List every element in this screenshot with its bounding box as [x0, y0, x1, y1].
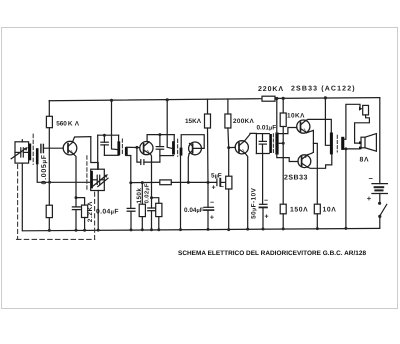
- wire CV1 top stub: [21, 140, 23, 142]
- node AVC: [207, 181, 210, 184]
- svg-text:10Λ: 10Λ: [323, 207, 337, 214]
- wire CV1 bottom to ground rail: [21, 163, 23, 231]
- arrow CV2: [93, 176, 106, 186]
- wire top supply rail right: [275, 97, 380, 100]
- wire T3 secondary bottom to Q6 base: [277, 155, 298, 162]
- T3 core dashed: [272, 134, 274, 153]
- wire T3 secondary top to Q5 base: [277, 128, 297, 134]
- wire Q4 collector: [244, 133, 256, 141]
- svg-text:+: +: [265, 213, 269, 220]
- wire right edge to battery: [379, 98, 381, 184]
- svg-text:0.02µF: 0.02µF: [143, 183, 150, 203]
- antenna coil L1 secondary winding: [36, 148, 39, 164]
- svg-text:8Λ: 8Λ: [360, 157, 370, 164]
- transistor Q5 output 2SB33 upper: [297, 120, 310, 133]
- node rail T3: [275, 97, 278, 100]
- antenna coil L1 primary winding: [29, 144, 31, 161]
- oscillator coil box L2 with variable capacitor CV2: [91, 169, 105, 190]
- transistor Q3 detector: [189, 142, 202, 155]
- node rail C5: [150, 228, 153, 231]
- T4 primary winding bar: [330, 133, 333, 155]
- output transformer T4 center tap from rail: [325, 98, 330, 145]
- wire T1 secondary to Q2 base: [126, 146, 140, 148]
- node rail C9: [262, 228, 265, 231]
- capacitor C1 0.005uF series plates: [40, 144, 42, 152]
- T1 secondary winding bar: [125, 147, 128, 156]
- wire rail feed to T1 tap: [112, 100, 118, 149]
- node rail R12: [316, 227, 319, 230]
- wire rail feed to T2 tap: [167, 100, 172, 149]
- svg-text:+: +: [212, 185, 216, 192]
- node Q2 base branch: [135, 146, 138, 149]
- node rail C3: [130, 228, 133, 231]
- node rail R5: [157, 228, 160, 231]
- svg-text:−: −: [220, 184, 224, 191]
- node rail T2: [179, 228, 182, 231]
- wire Q2 collector: [147, 135, 149, 142]
- wire Q5 collector: [306, 119, 331, 132]
- wire AGC line: [131, 181, 160, 183]
- svg-text:0.04µF: 0.04µF: [184, 207, 204, 214]
- capacitor C2 emitter bypass: [75, 198, 77, 207]
- capacitor C5 0.02uF: [151, 198, 153, 208]
- node 150k: [141, 181, 144, 184]
- svg-text:10KΛ: 10KΛ: [287, 113, 305, 120]
- wire T3 secondary top to rail: [276, 99, 278, 133]
- node bias divider: [48, 181, 51, 184]
- svg-text:2.2KΛ: 2.2KΛ: [87, 201, 94, 222]
- node rail R11: [282, 227, 285, 230]
- svg-text:0.04µF: 0.04µF: [96, 209, 119, 216]
- resistor R12 10ohm: [314, 204, 320, 214]
- wire base Q1: [43, 147, 63, 149]
- resistor R6 volume (horizontal): [160, 180, 172, 185]
- transistor Q6 output 2SB33 lower: [298, 155, 311, 168]
- svg-text:0.005µF: 0.005µF: [41, 154, 48, 184]
- wire secondary to ground rail: [345, 149, 347, 229]
- resistor R4 150k: [141, 183, 143, 205]
- driver transformer T3 primary bar: [269, 134, 272, 153]
- capacitor C7 5uF electrolytic: [216, 179, 218, 186]
- transistor Q1 converter: [63, 141, 77, 155]
- IF transformer T1 primary circuit: [98, 134, 119, 136]
- wire Q1 emitter: [74, 154, 76, 197]
- svg-text:200KΛ: 200KΛ: [233, 118, 254, 125]
- resistor R2 vertical (antenna return): [48, 182, 50, 205]
- speaker LS 8 ohm: [361, 137, 365, 148]
- node rail R4: [141, 228, 144, 231]
- capacitor C6 0.04uF electrolytic: [207, 182, 209, 207]
- wire L1 secondary bottom to oscillator: [37, 164, 90, 182]
- svg-text:15KΛ: 15KΛ: [185, 118, 202, 125]
- battery B1: [372, 183, 387, 185]
- wire emitters to 10ohm: [313, 143, 317, 204]
- wire T4 secondary top to jack: [344, 104, 360, 139]
- resistor R10 10K: [282, 98, 284, 113]
- node rail L2: [97, 229, 100, 232]
- resistor R11 150ohm: [280, 204, 286, 214]
- node Q1 emitter: [75, 196, 78, 199]
- svg-text:220KΛ: 220KΛ: [258, 86, 284, 93]
- svg-text:150Λ: 150Λ: [290, 207, 308, 214]
- resistor R7 15K: [207, 99, 209, 114]
- node detector out: [187, 181, 190, 184]
- wire oscillator box bottom to ground: [97, 191, 99, 231]
- wire Q4 emitter to ground: [245, 153, 248, 229]
- svg-text:+: +: [367, 194, 372, 203]
- svg-text:−: −: [210, 199, 214, 206]
- node rail Q4 emitter: [246, 228, 249, 231]
- resistor R8 base bias lower: [228, 148, 230, 177]
- node Q4 base bias: [227, 146, 230, 149]
- antenna ferrite core dashed: [32, 134, 34, 164]
- T2 core dashed: [177, 139, 179, 156]
- resistor R1 560K vertical: [48, 101, 50, 117]
- wire Q6 emitter joins: [307, 152, 313, 155]
- wire Q4 base: [229, 146, 236, 148]
- wire Q3 emitter: [187, 154, 190, 183]
- speaker terminal top: [359, 141, 362, 144]
- svg-text:150k: 150k: [136, 188, 143, 204]
- capacitor C9 50uF electrolytic: [262, 154, 264, 205]
- IF transformer T2 primary circuit: [147, 134, 174, 136]
- oscillator core dashed: [86, 156, 88, 191]
- svg-text:+: +: [210, 215, 214, 222]
- T4 core dashed: [336, 135, 338, 152]
- transistor Q4 audio driver: [235, 141, 248, 154]
- node rail R3: [83, 229, 86, 232]
- wire bottom ground rail: [23, 228, 380, 230]
- wire detector base loop: [181, 135, 204, 149]
- node secondary ground: [344, 147, 347, 150]
- svg-text:5µF: 5µF: [211, 173, 222, 180]
- node rail 10K: [282, 97, 285, 100]
- node Q2 emitter: [150, 196, 153, 199]
- variable capacitor CV1 tuning box: [15, 142, 29, 163]
- wire node collector/oscillator junction vertical: [97, 135, 99, 169]
- wire Q5 emitter: [307, 130, 314, 152]
- transistor Q2 IF amplifier: [140, 142, 153, 155]
- node rail C2: [75, 229, 78, 232]
- T1 core dashed: [121, 139, 123, 155]
- svg-text:560K Λ: 560K Λ: [56, 120, 80, 127]
- node AGC left: [129, 181, 132, 184]
- T1 primary winding bar: [117, 141, 120, 155]
- T4 secondary winding bar: [341, 137, 344, 150]
- node rail T1: [110, 99, 113, 102]
- svg-text:−: −: [264, 198, 268, 205]
- wire Q1 collector: [73, 137, 91, 142]
- T2 primary winding bar: [172, 141, 175, 154]
- wire center tap bias: [282, 127, 284, 205]
- node rail C6: [207, 228, 210, 231]
- node R8 ground: [227, 228, 230, 231]
- wire top supply rail left: [49, 99, 262, 101]
- node rail T4: [344, 227, 347, 230]
- capacitor C4 neutralizing: [137, 147, 141, 162]
- svg-text:2SB33 (AC122): 2SB33 (AC122): [291, 85, 356, 93]
- speaker terminal bottom: [359, 147, 362, 150]
- node rail T2: [166, 98, 169, 101]
- earphone jack J1: [363, 105, 369, 115]
- resistor R9 200K: [227, 99, 229, 114]
- wire oscillator box top feed: [97, 163, 99, 170]
- svg-text:0.01µF: 0.01µF: [257, 125, 277, 132]
- capacitor C3 0.04uF: [130, 183, 132, 209]
- svg-text:SCHEMA ELETTRICO DEL RADIORICE: SCHEMA ELETTRICO DEL RADIORICEVITORE G.B…: [178, 250, 366, 257]
- node center tap: [282, 142, 285, 145]
- arrow CV1: [11, 148, 26, 159]
- wire Q6 collector: [308, 154, 332, 168]
- node rail R1: [48, 229, 51, 232]
- resistor R5 emitter: [152, 198, 159, 204]
- wire T4 secondary bottom to speaker: [344, 148, 359, 150]
- switch S1: [378, 202, 381, 205]
- T3 secondary winding bar: [275, 133, 278, 155]
- svg-text:2SB33: 2SB33: [284, 174, 308, 181]
- T2 secondary winding bar: [180, 148, 183, 156]
- wire Q2 emitter: [150, 154, 151, 198]
- wire jack to speaker top: [355, 115, 370, 143]
- wire T1 secondary bottom: [126, 156, 131, 183]
- svg-text:50µF-10V: 50µF-10V: [250, 187, 257, 219]
- dashed gang link tuning: [17, 165, 19, 240]
- capacitor C8 0.01uF with box: [256, 133, 269, 135]
- resistor R3 2.2K: [76, 198, 85, 206]
- node rail T4: [324, 96, 327, 99]
- svg-text:−: −: [369, 174, 374, 183]
- resistor 220K horizontal in rail: [262, 96, 275, 101]
- wire T2 secondary bottom to ground: [180, 156, 182, 230]
